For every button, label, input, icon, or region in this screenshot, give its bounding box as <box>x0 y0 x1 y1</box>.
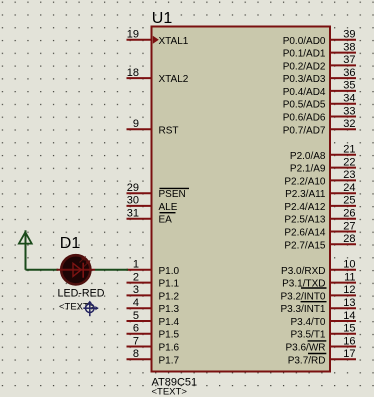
svg-text:32: 32 <box>343 118 355 130</box>
pin 5 P1.4 <box>127 310 180 328</box>
svg-text:P2.0/A8: P2.0/A8 <box>290 151 326 162</box>
svg-text:EA: EA <box>159 215 173 226</box>
svg-text:18: 18 <box>127 67 139 79</box>
svg-text:17: 17 <box>343 348 355 360</box>
svg-text:P2.5/A13: P2.5/A13 <box>284 215 326 226</box>
pin 25 P2.4/A12 <box>284 195 356 213</box>
pin 29 PSEN <box>127 182 190 200</box>
svg-text:P3.7/RD: P3.7/RD <box>288 355 326 366</box>
pin 22 P2.1/A9 <box>290 156 356 174</box>
svg-text:P1.5: P1.5 <box>159 330 180 341</box>
svg-text:15: 15 <box>343 323 355 335</box>
pin 30 ALE <box>127 195 178 213</box>
wire LED cathode to P1.0 pin <box>95 269 128 271</box>
pin 10 P3.0/RXD <box>281 259 356 277</box>
svg-text:34: 34 <box>343 93 355 105</box>
svg-text:27: 27 <box>343 220 355 232</box>
pin 15 P3.5/T1 <box>290 323 356 341</box>
pin 32 P0.7/AD7 <box>283 118 356 136</box>
svg-text:28: 28 <box>343 233 355 245</box>
svg-text:P3.0/RXD: P3.0/RXD <box>281 266 325 277</box>
svg-text:P1.0: P1.0 <box>159 266 180 277</box>
svg-text:P3.6/WR: P3.6/WR <box>285 343 325 354</box>
svg-text:10: 10 <box>343 259 355 271</box>
diode D1 LED-RED <box>57 255 96 284</box>
svg-text:P2.7/A15: P2.7/A15 <box>284 240 326 251</box>
svg-text:P1.2: P1.2 <box>159 291 180 302</box>
pin 38 P0.1/AD1 <box>283 41 356 59</box>
svg-text:P3.2/INT0: P3.2/INT0 <box>280 291 325 302</box>
svg-text:P1.1: P1.1 <box>159 279 180 290</box>
origin marker on D1 text <box>83 301 98 317</box>
svg-text:39: 39 <box>343 29 355 41</box>
pin 8 P1.7 <box>127 348 180 366</box>
pin 16 P3.6/WR <box>285 335 356 353</box>
IC U1 AT89C51 body <box>152 27 331 372</box>
svg-text:19: 19 <box>127 29 139 41</box>
svg-text:26: 26 <box>343 208 355 220</box>
svg-text:LED-RED: LED-RED <box>58 288 105 300</box>
svg-text:2: 2 <box>133 271 139 283</box>
svg-text:P0.4/AD4: P0.4/AD4 <box>283 87 326 98</box>
svg-text:35: 35 <box>343 80 355 92</box>
svg-text:33: 33 <box>343 105 355 117</box>
svg-text:P2.4/A12: P2.4/A12 <box>284 202 326 213</box>
svg-text:11: 11 <box>344 271 355 283</box>
svg-text:P2.3/A11: P2.3/A11 <box>285 189 326 200</box>
pin 34 P0.5/AD5 <box>283 93 356 111</box>
pin 11 P3.1/TXD <box>282 271 356 289</box>
svg-text:P1.4: P1.4 <box>159 317 180 328</box>
pin 3 P1.2 <box>127 284 180 302</box>
svg-text:P2.1/A9: P2.1/A9 <box>290 164 326 175</box>
pin 31 EA <box>127 208 176 226</box>
svg-text:RST: RST <box>159 125 179 136</box>
svg-text:P1.6: P1.6 <box>159 343 180 354</box>
svg-text:16: 16 <box>343 335 355 347</box>
svg-text:25: 25 <box>343 195 355 207</box>
svg-text:22: 22 <box>343 156 355 168</box>
svg-text:12: 12 <box>343 284 355 296</box>
svg-text:3: 3 <box>133 284 139 296</box>
svg-text:P0.0/AD0: P0.0/AD0 <box>283 36 326 47</box>
svg-text:P0.2/AD2: P0.2/AD2 <box>283 61 326 72</box>
svg-text:XTAL2: XTAL2 <box>159 74 189 85</box>
pin 2 P1.1 <box>127 271 180 289</box>
svg-text:6: 6 <box>133 323 139 335</box>
pin 37 P0.2/AD2 <box>283 54 356 72</box>
svg-text:P0.6/AD6: P0.6/AD6 <box>283 113 326 124</box>
svg-text:38: 38 <box>343 41 355 53</box>
svg-text:5: 5 <box>133 310 139 322</box>
svg-text:P3.3/INT1: P3.3/INT1 <box>280 304 325 315</box>
svg-text:8: 8 <box>133 348 139 360</box>
pin 24 P2.3/A11 <box>285 182 356 200</box>
svg-text:9: 9 <box>133 118 139 130</box>
wire power to LED anode <box>26 269 59 271</box>
svg-text:23: 23 <box>343 169 355 181</box>
pin 9 RST <box>127 118 179 136</box>
svg-text:21: 21 <box>343 144 355 156</box>
pin 23 P2.2/A10 <box>284 169 356 187</box>
svg-text:P0.1/AD1: P0.1/AD1 <box>283 49 326 60</box>
svg-text:36: 36 <box>343 67 355 79</box>
pin 7 P1.6 <box>127 335 180 353</box>
svg-text:P1.3: P1.3 <box>159 304 180 315</box>
pin 14 P3.4/T0 <box>290 310 356 328</box>
pin 35 P0.4/AD4 <box>283 80 356 98</box>
svg-text:P2.6/A14: P2.6/A14 <box>284 228 326 239</box>
pin 33 P0.6/AD6 <box>283 105 356 123</box>
svg-text:U1: U1 <box>152 10 173 27</box>
svg-text:PSEN: PSEN <box>159 189 186 200</box>
svg-text:P1.7: P1.7 <box>159 355 180 366</box>
svg-text:13: 13 <box>343 297 355 309</box>
svg-text:P0.5/AD5: P0.5/AD5 <box>283 100 326 111</box>
pin 13 P3.3/INT1 <box>280 297 356 315</box>
pin 27 P2.6/A14 <box>284 220 356 238</box>
svg-text:7: 7 <box>133 335 139 347</box>
svg-text:31: 31 <box>127 208 139 220</box>
pin 18 XTAL2 <box>127 67 189 85</box>
pin 39 P0.0/AD0 <box>283 29 356 47</box>
pin 28 P2.7/A15 <box>284 233 356 251</box>
svg-text:29: 29 <box>127 182 139 194</box>
pin 12 P3.2/INT0 <box>280 284 356 302</box>
svg-text:P3.5/T1: P3.5/T1 <box>290 330 325 341</box>
svg-text:P0.7/AD7: P0.7/AD7 <box>283 125 326 136</box>
svg-text:24: 24 <box>343 182 355 194</box>
svg-text:14: 14 <box>343 310 355 322</box>
power terminal VCC arrow <box>19 230 32 269</box>
pin 17 P3.7/RD <box>288 348 356 366</box>
svg-text:P3.4/T0: P3.4/T0 <box>290 317 325 328</box>
svg-text:P2.2/A10: P2.2/A10 <box>284 176 326 187</box>
pin 19 XTAL1 <box>127 29 189 47</box>
svg-text:D1: D1 <box>60 235 81 252</box>
pin 26 P2.5/A13 <box>284 208 356 226</box>
pin 36 P0.3/AD3 <box>283 67 356 85</box>
svg-text:30: 30 <box>127 195 139 207</box>
pin 1 P1.0 <box>127 259 180 277</box>
svg-text:4: 4 <box>133 297 139 309</box>
svg-text:<TEXT>: <TEXT> <box>152 387 188 397</box>
pin 21 P2.0/A8 <box>290 144 356 162</box>
pin 4 P1.3 <box>127 297 180 315</box>
pin 6 P1.5 <box>127 323 180 341</box>
svg-text:1: 1 <box>133 259 139 271</box>
svg-text:37: 37 <box>343 54 355 66</box>
svg-text:XTAL1: XTAL1 <box>159 36 189 47</box>
svg-text:ALE: ALE <box>159 202 178 213</box>
svg-text:P0.3/AD3: P0.3/AD3 <box>283 74 326 85</box>
